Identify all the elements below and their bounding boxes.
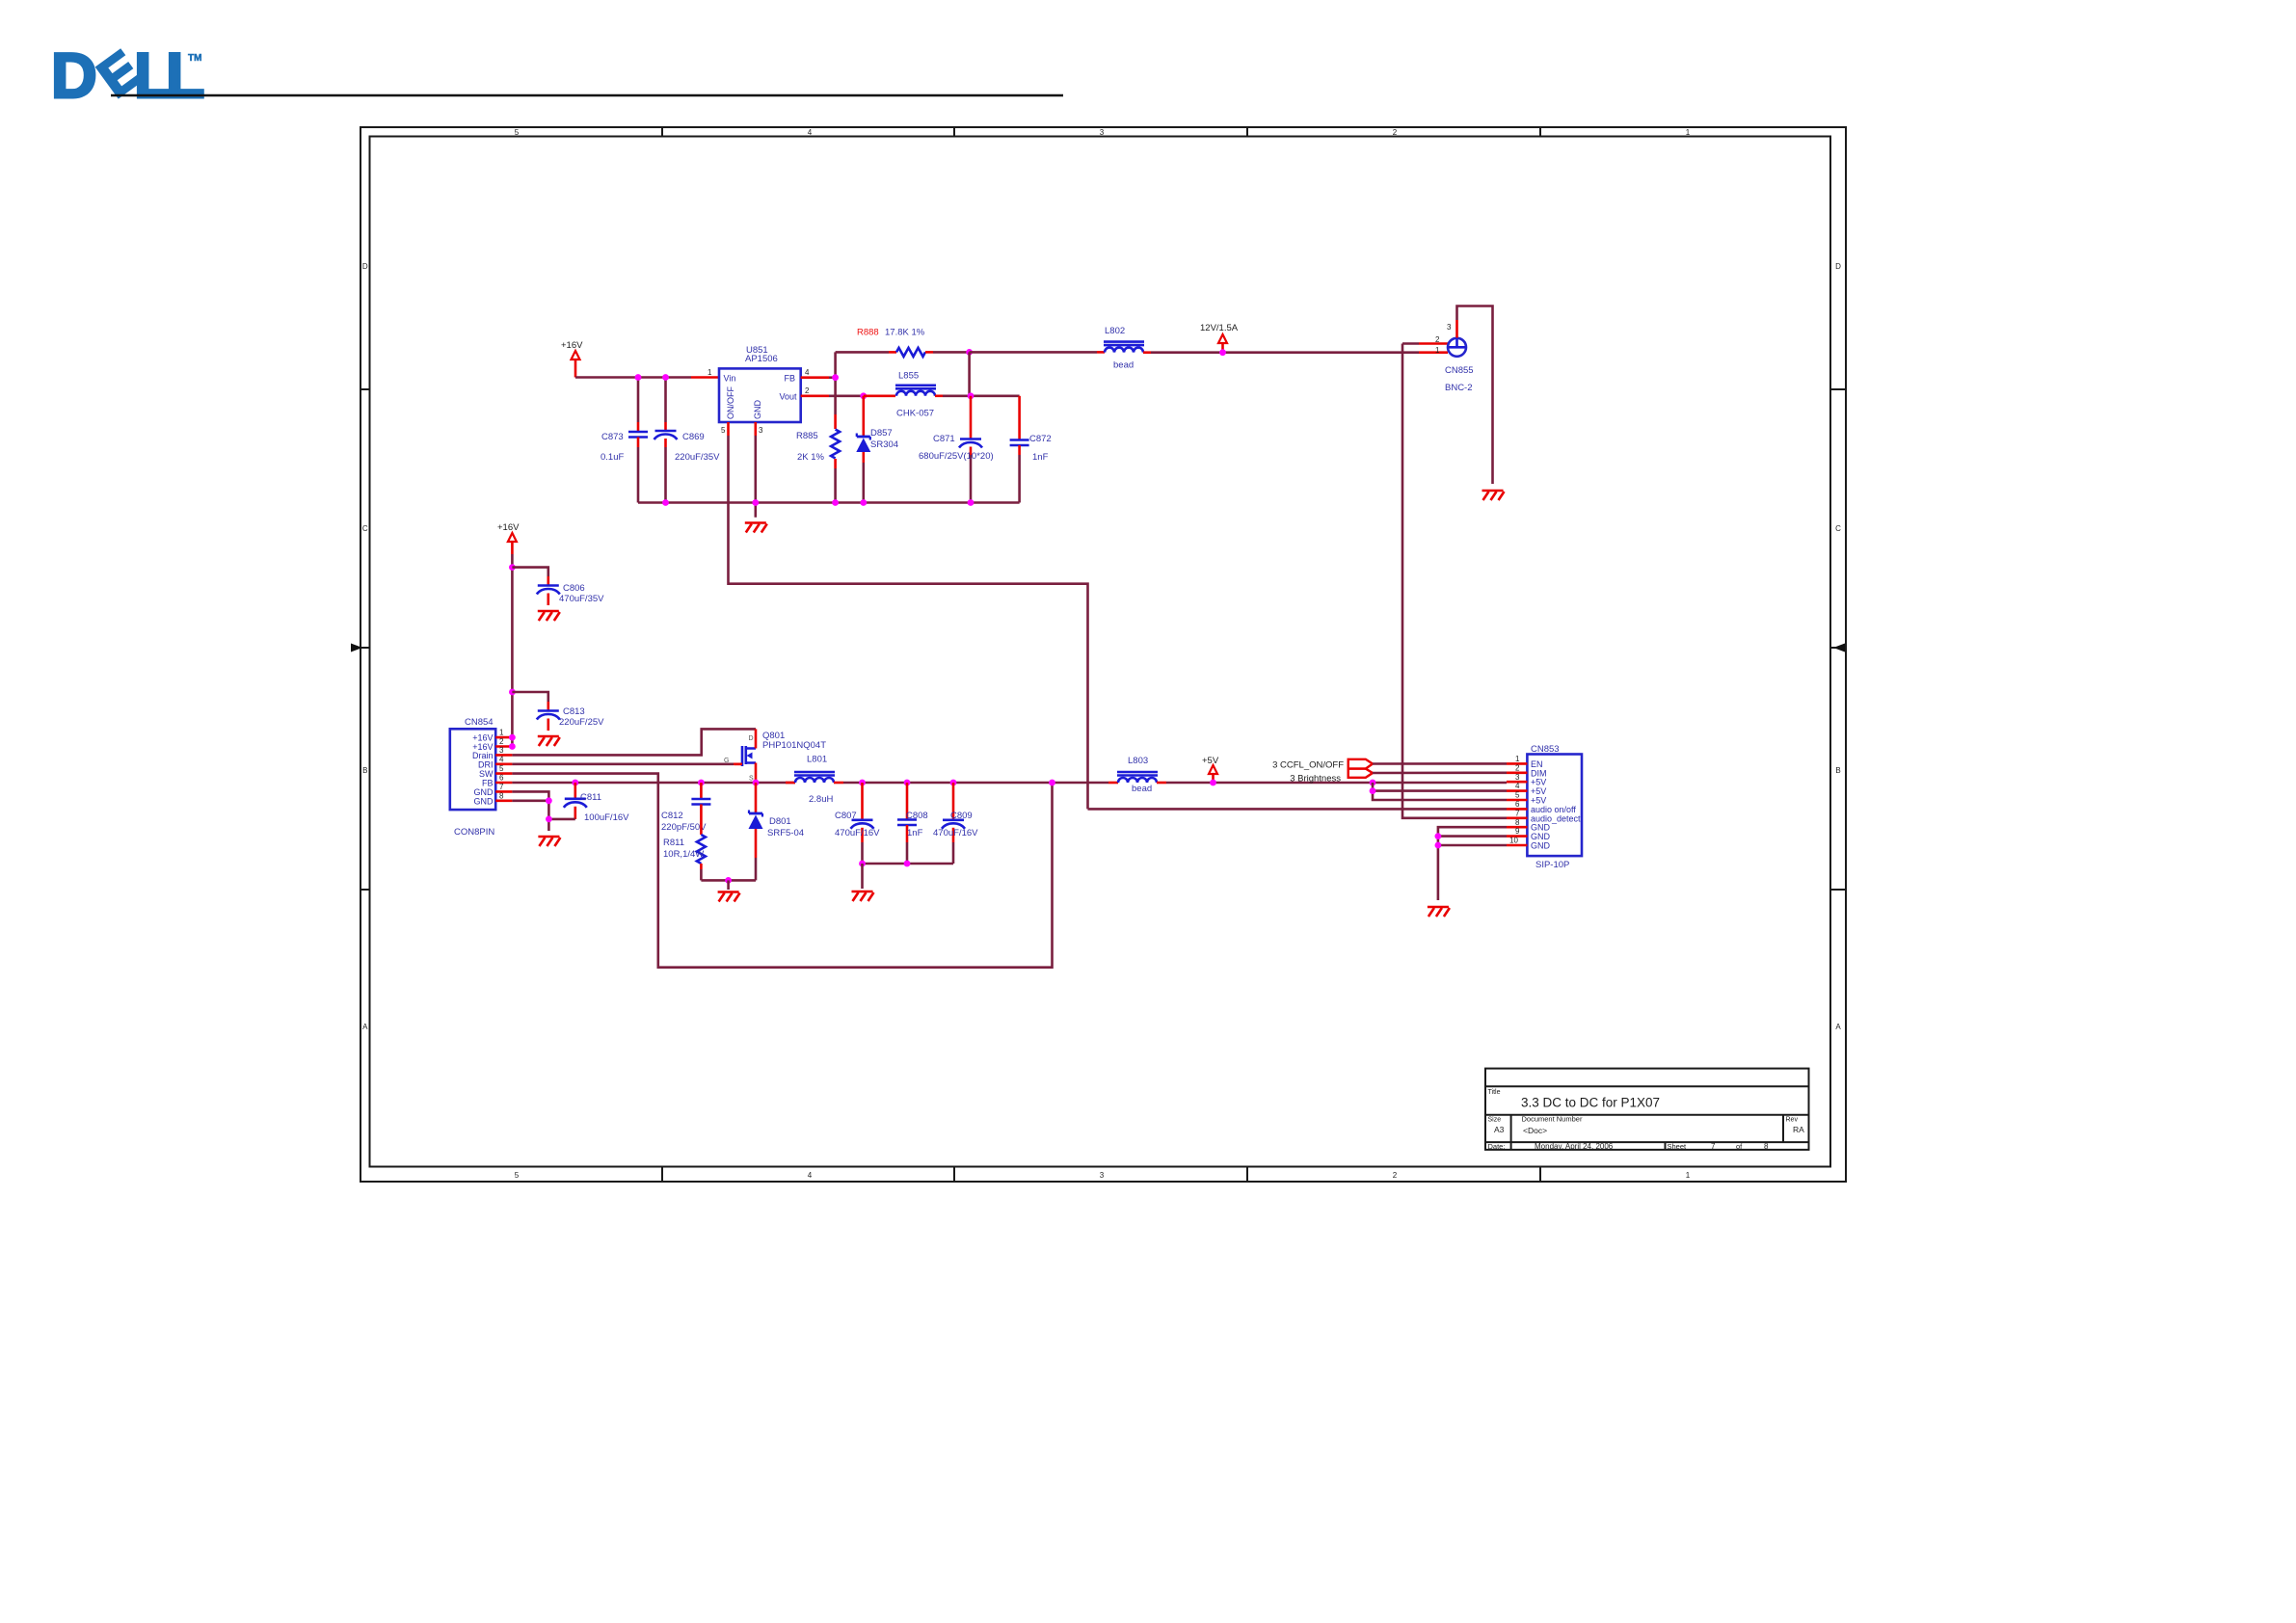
svg-text:FB: FB <box>784 374 795 384</box>
svg-text:8: 8 <box>1764 1142 1769 1151</box>
node SW loop junction <box>1049 780 1055 786</box>
border zone ticks right <box>1830 389 1846 890</box>
capacitor C813 220uF/25V <box>512 692 604 731</box>
connector CN854 CON8PIN <box>450 717 495 838</box>
svg-text:1: 1 <box>1435 346 1440 355</box>
svg-text:C812: C812 <box>661 811 683 821</box>
resistor R885 2K 1% <box>796 414 840 503</box>
wire FB to output rail <box>512 782 795 785</box>
wire Drain to Q801 drain <box>512 729 756 755</box>
wire EN to CN853 pin1 <box>1373 762 1507 765</box>
svg-text:7: 7 <box>1711 1142 1716 1151</box>
svg-text:bead: bead <box>1132 784 1152 794</box>
ground C806 <box>538 611 560 621</box>
diode D801 SRF5-04 <box>749 783 805 880</box>
border zone labels top <box>515 128 1691 137</box>
svg-text:A3: A3 <box>1494 1125 1505 1134</box>
svg-text:C: C <box>362 524 368 533</box>
ground U851 GND <box>745 523 767 533</box>
svg-text:7: 7 <box>1515 809 1520 817</box>
svg-text:100uF/16V: 100uF/16V <box>584 812 629 823</box>
capacitor C873 0.1uF <box>601 378 648 503</box>
svg-text:+16V: +16V <box>497 522 520 533</box>
svg-text:GND: GND <box>753 400 762 420</box>
svg-text:C809: C809 <box>950 811 973 821</box>
svg-text:+16V: +16V <box>472 733 493 743</box>
ground C813 <box>538 736 560 746</box>
svg-text:D: D <box>749 735 754 742</box>
pin 7 stub CN853 <box>1507 809 1527 817</box>
node C806 branch junction <box>509 564 516 571</box>
svg-text:D: D <box>362 262 368 271</box>
svg-text:3: 3 <box>759 426 763 435</box>
svg-text:L802: L802 <box>1105 326 1125 336</box>
wire +16V feed to CN854 <box>511 554 514 747</box>
pin 4 stub CN854 DRI <box>495 755 512 764</box>
svg-text:R885: R885 <box>796 431 818 441</box>
svg-text:bead: bead <box>1113 360 1134 371</box>
net label CCFL_ON/OFF <box>1272 759 1344 770</box>
svg-text:3: 3 <box>499 746 504 755</box>
svg-text:C873: C873 <box>601 432 624 442</box>
border row labels right <box>1835 262 1841 1031</box>
svg-text:A: A <box>362 1023 368 1031</box>
pin 3 stub CN855 top <box>1447 320 1457 338</box>
svg-text:Date:: Date: <box>1488 1142 1506 1151</box>
off-page connector Brightness <box>1348 769 1373 778</box>
power +16V (top) <box>561 340 583 378</box>
svg-text:5: 5 <box>515 1171 520 1180</box>
capacitor C809 470uF/16V <box>933 780 978 864</box>
svg-text:3 Brightness: 3 Brightness <box>1290 773 1341 784</box>
svg-text:2: 2 <box>1393 128 1398 137</box>
svg-text:220uF/35V: 220uF/35V <box>675 452 720 463</box>
border zone ticks left <box>360 389 370 890</box>
svg-text:2: 2 <box>1435 335 1440 344</box>
pin 1 stub CN854 <box>495 729 516 741</box>
svg-text:470uF/16V: 470uF/16V <box>933 828 978 838</box>
svg-text:D: D <box>51 40 97 111</box>
svg-text:1: 1 <box>499 729 504 737</box>
svg-text:A: A <box>1835 1023 1841 1031</box>
off-page connector CCFL_ON/OFF <box>1348 759 1373 769</box>
border zone ticks bottom <box>662 1167 1540 1182</box>
capacitor C811 100uF/16V <box>546 780 629 823</box>
wire GND bus CN853 pins 8-10 <box>1435 827 1508 900</box>
wire audio on/off to CN853 pin6 <box>1088 808 1508 811</box>
svg-text:2.8uH: 2.8uH <box>809 794 833 805</box>
svg-text:Vin: Vin <box>724 374 736 384</box>
resistor R811 10R,1/4W <box>663 820 706 880</box>
sheet inner border frame <box>370 137 1831 1167</box>
ground CN854 <box>538 837 560 846</box>
pin 2 stub CN855 and wire to CN853 pin7 <box>1402 335 1507 818</box>
svg-text:10: 10 <box>1509 837 1518 845</box>
pin 1 stub U851 Vin <box>691 368 719 378</box>
svg-text:1: 1 <box>1686 1171 1691 1180</box>
wire GND pin8 to bus <box>512 797 551 804</box>
svg-text:5: 5 <box>1515 791 1520 800</box>
pin 3 stub U851 GND <box>756 422 763 436</box>
svg-text:680uF/25V(10*20): 680uF/25V(10*20) <box>919 451 994 462</box>
capacitor C807 470uF/16V <box>835 780 880 864</box>
pin 2 stub CN854 <box>495 737 516 750</box>
svg-text:3: 3 <box>1515 773 1520 782</box>
inductor L803 bead <box>1108 756 1507 794</box>
pin 8 stub CN854 GND <box>495 791 512 801</box>
svg-text:C813: C813 <box>563 706 585 717</box>
svg-text:CHK-057: CHK-057 <box>896 409 934 419</box>
svg-text:GND: GND <box>1531 841 1551 851</box>
wire output caps ground bus <box>859 861 953 889</box>
svg-text:10R,1/4W: 10R,1/4W <box>663 849 704 860</box>
svg-text:DRI: DRI <box>478 760 494 770</box>
svg-text:3 CCFL_ON/OFF: 3 CCFL_ON/OFF <box>1272 759 1344 770</box>
power arrow +5V <box>1202 756 1219 785</box>
wire +5V branch to pins 4 and 5 <box>1370 783 1507 800</box>
ground CN853 <box>1428 907 1450 917</box>
svg-text:Size: Size <box>1488 1117 1502 1124</box>
pin 1 stub CN855 <box>1419 346 1448 355</box>
svg-text:C806: C806 <box>563 583 585 594</box>
svg-text:3: 3 <box>1100 1171 1105 1180</box>
border zone labels bottom <box>515 1171 1691 1180</box>
sheet outer border frame <box>360 127 1846 1182</box>
svg-text:R888: R888 <box>857 328 879 338</box>
svg-text:SR304: SR304 <box>870 439 898 450</box>
svg-text:+5V: +5V <box>1202 756 1219 766</box>
border zone ticks top <box>662 127 1540 137</box>
svg-text:B: B <box>362 766 367 775</box>
border row labels left <box>362 262 368 1031</box>
capacitor C872 1nF <box>1010 396 1052 503</box>
svg-text:L803: L803 <box>1128 756 1148 766</box>
svg-text:4: 4 <box>808 1171 813 1180</box>
svg-text:1nF: 1nF <box>1032 452 1049 463</box>
svg-text:6: 6 <box>499 774 504 783</box>
svg-text:RA: RA <box>1793 1125 1804 1134</box>
svg-text:B: B <box>1835 766 1840 775</box>
svg-text:2: 2 <box>499 737 504 746</box>
svg-text:3: 3 <box>1447 323 1452 332</box>
svg-text:D857: D857 <box>870 428 893 439</box>
node R888 right junction <box>966 349 973 396</box>
svg-text:2: 2 <box>1515 763 1520 772</box>
svg-text:C808: C808 <box>906 811 928 821</box>
node C812 top junction <box>698 780 705 786</box>
svg-text:C: C <box>1835 524 1841 533</box>
svg-text:L801: L801 <box>807 755 827 765</box>
svg-text:5: 5 <box>499 764 504 773</box>
svg-text:12V/1.5A: 12V/1.5A <box>1200 323 1239 333</box>
svg-text:1nF: 1nF <box>907 828 923 838</box>
pin 3 stub CN853 <box>1507 773 1527 782</box>
svg-text:FB: FB <box>482 779 494 788</box>
connector CN853 SIP-10P <box>1527 744 1582 870</box>
svg-text:SIP-10P: SIP-10P <box>1535 860 1569 870</box>
inductor L855 CHK-057 <box>864 371 1020 419</box>
ground CN855 <box>1482 491 1505 500</box>
border centering arrow left <box>351 644 362 652</box>
svg-text:8: 8 <box>1515 818 1520 827</box>
pin 7 stub CN854 GND <box>495 783 512 792</box>
svg-text:470uF/35V: 470uF/35V <box>559 594 604 604</box>
svg-text:1: 1 <box>1515 755 1520 763</box>
svg-text:R811: R811 <box>663 838 684 848</box>
pin 2 stub U851 Vout <box>801 386 829 396</box>
pin 9 stub CN853 <box>1507 827 1527 836</box>
net label Brightness <box>1290 773 1341 784</box>
wire +16V to U851 Vin <box>575 376 691 379</box>
pin 5 stub CN853 <box>1507 791 1527 800</box>
svg-text:BNC-2: BNC-2 <box>1445 383 1473 393</box>
transistor Q801 PHP101NQ04T <box>724 729 826 783</box>
pin 3 stub CN854 Drain <box>495 746 512 755</box>
diode D857 SR304 <box>856 392 898 502</box>
svg-text:2K 1%: 2K 1% <box>797 452 825 463</box>
svg-text:ON/OFF: ON/OFF <box>726 386 735 419</box>
power +16V (lower) <box>497 522 520 554</box>
svg-text:Document Number: Document Number <box>1522 1115 1583 1124</box>
svg-text:C807: C807 <box>835 811 857 821</box>
pin 4 stub U851 FB <box>801 368 829 378</box>
svg-text:SRF5-04: SRF5-04 <box>767 828 804 838</box>
pin 6 stub CN853 <box>1507 800 1527 809</box>
wire SW loop to output rail <box>512 774 1052 968</box>
svg-text:2: 2 <box>805 386 810 395</box>
svg-text:220pF/50V: 220pF/50V <box>661 822 707 833</box>
title block text <box>1488 1089 1805 1151</box>
svg-text:D: D <box>1835 262 1841 271</box>
svg-text:+16V: +16V <box>561 340 583 351</box>
svg-text:17.8K 1%: 17.8K 1% <box>885 328 925 338</box>
svg-text:G: G <box>724 758 729 764</box>
pin 6 stub CN854 FB <box>495 774 512 784</box>
svg-text:C871: C871 <box>933 434 955 444</box>
pin 2 stub CN853 <box>1507 763 1527 772</box>
svg-text:CN853: CN853 <box>1531 744 1560 755</box>
connector CN855 BNC-2 <box>1445 338 1474 393</box>
capacitor C808 1nF <box>897 780 928 864</box>
pin 5 stub CN854 SW <box>495 764 512 774</box>
svg-text:of: of <box>1736 1142 1743 1151</box>
svg-text:1: 1 <box>707 368 712 377</box>
pin 10 stub CN853 <box>1507 837 1527 845</box>
node C869 top junction <box>662 374 669 381</box>
svg-text:AP1506: AP1506 <box>745 354 778 364</box>
svg-text:5: 5 <box>721 426 726 435</box>
svg-text:1: 1 <box>1686 128 1691 137</box>
capacitor C869 220uF/35V <box>654 378 721 503</box>
wire Vout to D857 node <box>829 394 864 397</box>
svg-text:Title: Title <box>1488 1089 1501 1096</box>
svg-text:8: 8 <box>499 791 504 800</box>
svg-text:4: 4 <box>499 755 504 763</box>
svg-text:L855: L855 <box>898 371 919 382</box>
wire DIM to CN853 pin2 <box>1373 771 1507 774</box>
op-amp U851 AP1506 regulator box <box>719 345 801 422</box>
svg-text:C872: C872 <box>1029 434 1052 444</box>
svg-text:TM: TM <box>188 53 201 64</box>
capacitor C812 220pF/50V <box>661 783 710 833</box>
pin 5 stub U851 ON/OFF <box>721 422 729 436</box>
svg-text:Vout: Vout <box>779 392 797 402</box>
svg-text:CN855: CN855 <box>1445 365 1474 376</box>
svg-text:5: 5 <box>515 128 520 137</box>
pin 8 stub CN853 <box>1507 818 1527 827</box>
svg-text:Monday, April 24, 2006: Monday, April 24, 2006 <box>1535 1142 1614 1151</box>
wire ground rail under U851 <box>638 501 1020 504</box>
resistor R888 17.8K 1% <box>836 328 970 357</box>
node Q801 source junction <box>753 780 760 786</box>
header underline <box>111 94 1063 97</box>
wire ON/OFF long route to CN853 pin6 <box>729 436 1088 809</box>
svg-text:<Doc>: <Doc> <box>1523 1126 1547 1135</box>
svg-text:D801: D801 <box>769 816 791 827</box>
svg-text:L: L <box>166 40 204 111</box>
svg-text:SW: SW <box>479 769 494 779</box>
svg-text:Rev: Rev <box>1786 1117 1799 1124</box>
node rail junctions <box>662 499 974 506</box>
node C813 branch junction <box>509 689 516 696</box>
node C873 top junction <box>635 374 642 381</box>
node FB junction <box>832 374 839 381</box>
power arrow 12V/1.5A <box>1200 323 1239 356</box>
capacitor C871 680uF/25V <box>919 392 994 502</box>
border centering arrow right <box>1833 644 1845 652</box>
wire snubber ground bus <box>701 877 756 890</box>
svg-text:Sheet: Sheet <box>1668 1142 1688 1151</box>
svg-text:GND: GND <box>474 796 494 806</box>
capacitor C806 470uF/35V <box>512 568 604 605</box>
wire U851 GND pin down <box>754 436 757 518</box>
wire GND pin7 bus <box>512 791 548 831</box>
wire FB node <box>829 352 836 414</box>
svg-text:470uF/16V: 470uF/16V <box>835 828 880 838</box>
title block frame <box>1485 1069 1809 1150</box>
svg-text:0.1uF: 0.1uF <box>601 452 624 463</box>
wire CN855 pin3 to ground <box>1457 306 1493 485</box>
inductor L802 bead <box>970 326 1419 371</box>
svg-text:220uF/25V: 220uF/25V <box>559 717 604 728</box>
svg-text:PHP101NQ04T: PHP101NQ04T <box>762 740 826 751</box>
svg-text:3.3 DC to DC for P1X07: 3.3 DC to DC for P1X07 <box>1521 1096 1660 1110</box>
svg-text:C869: C869 <box>682 432 705 442</box>
svg-text:C811: C811 <box>580 792 601 803</box>
ground output caps <box>852 891 874 901</box>
svg-text:3: 3 <box>1100 128 1105 137</box>
svg-text:2: 2 <box>1393 1171 1398 1180</box>
pin 1 stub CN853 <box>1507 755 1527 763</box>
node +5V branch junction <box>1370 780 1376 786</box>
svg-text:9: 9 <box>1515 827 1520 836</box>
svg-text:7: 7 <box>499 783 504 791</box>
svg-text:CON8PIN: CON8PIN <box>454 827 494 838</box>
svg-text:4: 4 <box>808 128 813 137</box>
svg-text:4: 4 <box>805 368 810 377</box>
inductor L801 2.8uH <box>786 755 1108 806</box>
svg-text:4: 4 <box>1515 782 1520 790</box>
Dell logo <box>51 39 204 111</box>
svg-text:6: 6 <box>1515 800 1520 809</box>
ground snubber <box>718 892 740 902</box>
wire DRI to Q801 gate <box>512 762 740 765</box>
svg-text:CN854: CN854 <box>465 717 494 728</box>
pin 4 stub CN853 <box>1507 782 1527 790</box>
